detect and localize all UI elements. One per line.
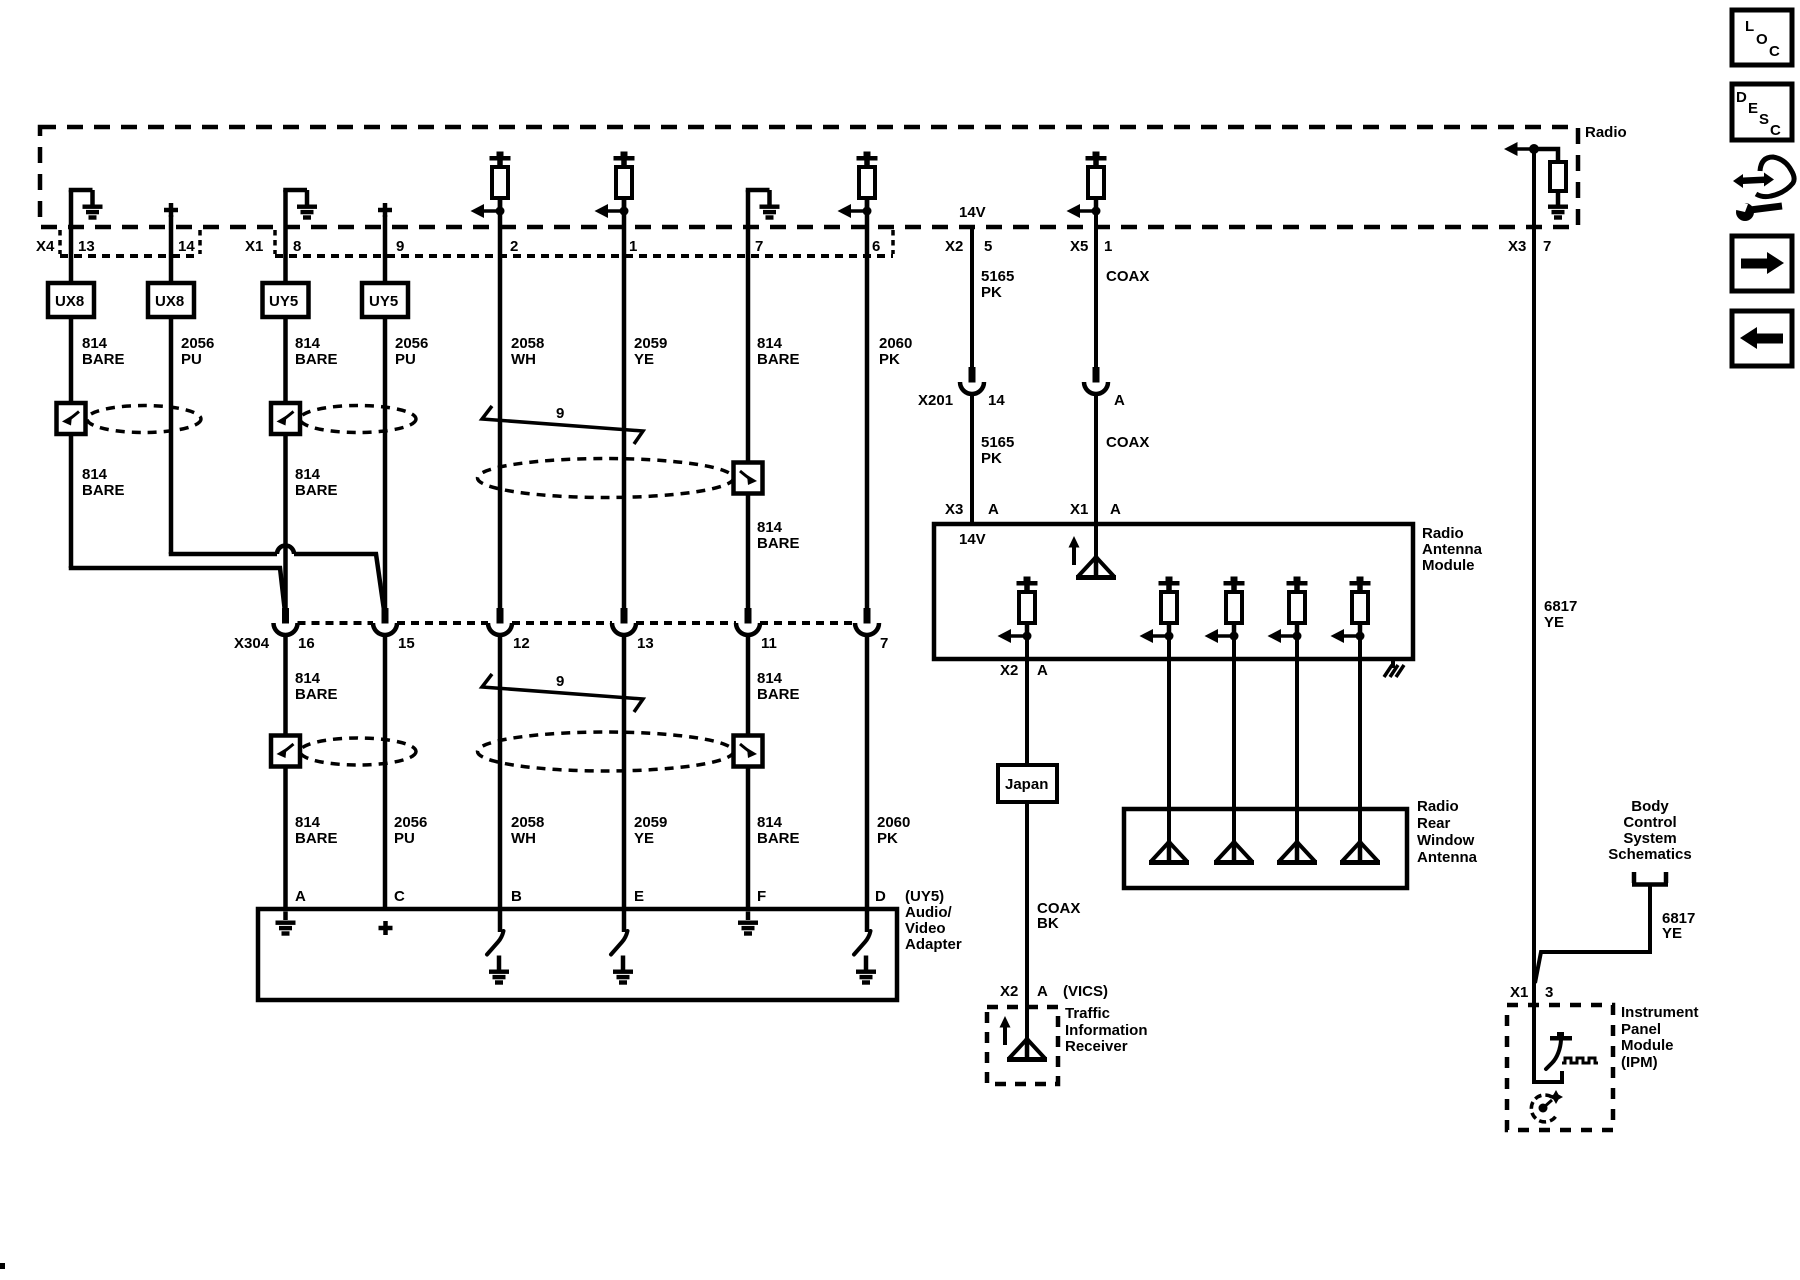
svg-text:A: A [988,501,999,518]
svg-text:BARE: BARE [757,351,800,368]
battery + (adapter C) [379,921,393,935]
svg-text:C: C [1770,122,1781,139]
gauge icon (IPM) [1531,1090,1563,1122]
svg-text:Instrument: Instrument [1621,1004,1699,1021]
svg-text:X304: X304 [234,635,270,652]
wire X1-8 814 BARE [283,190,288,612]
wire X304-13 to adapter E [622,637,627,909]
svg-text:L: L [1745,18,1754,35]
wire X5-1 COAX (lower) [1094,394,1098,557]
svg-text:14: 14 [988,392,1005,409]
wire X4-13 814 BARE [69,190,74,568]
svg-text:COAX: COAX [1106,268,1149,285]
resistor with arrow (radio, X1-2) [471,152,511,219]
in-line connector X201 pin 14 [960,367,984,394]
svg-text:9: 9 [556,405,564,422]
svg-text:3: 3 [1545,984,1553,1001]
svg-text:BARE: BARE [295,351,338,368]
svg-text:UX8: UX8 [155,293,184,310]
svg-text:8: 8 [293,238,301,255]
svg-text:X2: X2 [945,238,963,255]
shield drain symbol (X1-7) [734,463,763,494]
svg-text:B: B [511,888,522,905]
ground (radio, X4-13) [69,190,103,220]
connector labels X1 3 [1510,984,1553,1001]
wire module ant3 [1295,636,1299,842]
connector X304 pin 7 [855,608,879,635]
svg-text:UY5: UY5 [369,293,398,310]
off-page bracket (BCS) [1632,872,1668,885]
resistor with arrow (module ant 4) [1331,577,1371,644]
svg-text:X2: X2 [1000,983,1018,1000]
wire 6817 YE from BCS [1535,884,1650,983]
svg-text:Traffic: Traffic [1065,1005,1110,1022]
sidebar LOC box [1732,10,1792,65]
battery + (X1-9) [378,203,392,217]
svg-text:C: C [394,888,405,905]
svg-text:16: 16 [298,635,315,652]
svg-text:YE: YE [634,351,654,368]
svg-text:BARE: BARE [757,686,800,703]
Radio Antenna Module box [934,524,1483,659]
svg-text:BARE: BARE [82,482,125,499]
svg-text:Antenna: Antenna [1422,541,1483,558]
wire X304-16 to adapter A [283,637,288,909]
svg-text:814: 814 [757,519,783,536]
dashed Radio box [40,124,1627,227]
wire X1-6 2060 PK [865,198,870,610]
svg-text:X5: X5 [1070,238,1088,255]
svg-text:814: 814 [295,335,321,352]
svg-text:814: 814 [757,670,783,687]
svg-text:BARE: BARE [82,351,125,368]
svg-text:2058: 2058 [511,335,544,352]
option box UX8 (X4-13) [48,283,94,317]
svg-text:5165: 5165 [981,268,1014,285]
wire module ant4 [1358,636,1362,842]
svg-text:15: 15 [398,635,415,652]
svg-text:814: 814 [82,466,108,483]
switch to ground (adapter B) [487,910,509,985]
svg-text:COAX: COAX [1106,434,1149,451]
resistor with arrow (module ant 3) [1268,577,1308,644]
wire X5-1 COAX (upper) [1094,198,1098,367]
wire X1-7 814 BARE [746,190,751,610]
antenna symbol (module input) [1076,556,1116,578]
svg-text:X201: X201 [918,392,953,409]
svg-text:13: 13 [78,238,95,255]
svg-text:14V: 14V [959,531,986,548]
svg-text:A: A [1037,662,1048,679]
svg-text:BARE: BARE [757,535,800,552]
resistor with arrow (module out X2-A) [998,577,1038,644]
twisted pair 9 (upper) [482,405,643,444]
sidebar prev arrow box [1732,311,1792,366]
svg-text:BARE: BARE [295,686,338,703]
svg-text:PK: PK [981,450,1002,467]
svg-text:BARE: BARE [295,482,338,499]
svg-text:UY5: UY5 [269,293,298,310]
svg-text:2059: 2059 [634,335,667,352]
svg-text:814: 814 [82,335,108,352]
switch to ground (adapter D) [854,910,876,985]
wire X1-2 2058 WH [498,198,503,610]
svg-text:2056: 2056 [395,335,428,352]
resistor with arrow (radio, X1-6) [838,152,878,219]
wire module ant2 [1232,636,1236,842]
svg-text:5: 5 [984,238,992,255]
svg-text:PU: PU [181,351,202,368]
ground (radio, X1-7) [746,190,780,220]
shield drain symbol (X4-13) [57,403,86,434]
svg-text:X3: X3 [1508,238,1526,255]
sidebar next arrow box [1732,236,1792,291]
svg-text:C: C [1769,43,1780,60]
signal up arrow (module) [1069,536,1080,565]
connector labels X3 A [945,501,999,518]
svg-text:X1: X1 [1070,501,1088,518]
wire X1-1 2059 YE [622,198,627,610]
svg-text:(UY5): (UY5) [905,888,944,905]
svg-text:PK: PK [981,284,1002,301]
svg-text:YE: YE [1662,925,1682,942]
svg-text:Audio/: Audio/ [905,904,952,921]
wire module X2-A COAX BK [1025,636,1029,767]
Audio/Video Adapter box [258,888,962,1000]
antenna symbol (TIR) [1007,1038,1047,1060]
svg-text:Window: Window [1417,832,1475,849]
svg-text:(VICS): (VICS) [1063,983,1108,1000]
svg-text:Radio: Radio [1422,525,1464,542]
connector labels X2 A (VICS) [1000,983,1108,1000]
wire X1-9 2056 PU [383,215,388,610]
wire X2-5 5165 PK (lower) [970,394,974,524]
wire hop over X1-8 [277,546,294,555]
junction and arrow (radio X3-7) [1504,142,1539,156]
svg-text:Panel: Panel [1621,1021,1661,1038]
svg-text:A: A [295,888,306,905]
svg-text:14V: 14V [959,204,986,221]
svg-text:(IPM): (IPM) [1621,1054,1658,1071]
svg-text:2058: 2058 [511,814,544,831]
svg-text:2: 2 [510,238,518,255]
chassis ground (module case) [1384,659,1404,677]
ground (adapter A) [276,912,296,936]
svg-text:Body: Body [1631,798,1669,815]
svg-text:Video: Video [905,920,946,937]
svg-text:7: 7 [1543,238,1551,255]
svg-text:6: 6 [872,238,880,255]
svg-text:BARE: BARE [295,830,338,847]
connector X304 pin 15 [373,608,397,635]
rear window antenna 2 [1214,841,1254,863]
page speck artifact [0,1263,5,1269]
svg-text:12: 12 [513,635,530,652]
connector labels X201 14 A [918,392,1125,409]
wire X4-14 2056 PU [169,215,174,554]
svg-text:6817: 6817 [1544,598,1577,615]
battery + (X4-14) [164,203,178,217]
shield ellipse (lower pair A-C) [300,738,416,765]
svg-text:D: D [875,888,886,905]
ground (radio X3-7) [1548,191,1568,220]
svg-text:UX8: UX8 [55,293,84,310]
svg-text:X1: X1 [245,238,263,255]
connector X304 pin 13 [612,608,636,635]
sidebar DESC box [1732,84,1792,140]
svg-text:2060: 2060 [879,335,912,352]
rear window antenna 4 [1340,841,1380,863]
branch to resistor (radio X3-7) [1534,149,1558,162]
ground (radio, X1-8) [283,190,317,220]
resistor with arrow (module ant 2) [1205,577,1245,644]
resistor with arrow (radio, X5-1) [1067,152,1107,219]
svg-text:A: A [1037,983,1048,1000]
rear window antenna 3 [1277,841,1317,863]
svg-text:X3: X3 [945,501,963,518]
sidebar tools icon [1732,157,1794,221]
resistor with arrow (radio, X1-1) [595,152,635,219]
svg-text:A: A [1110,501,1121,518]
svg-text:Control: Control [1623,814,1676,831]
connector X1 bracket [245,230,893,256]
shield ellipse (X1 pair 8-9) [300,406,416,433]
Body Control System Schematics reference [1608,798,1691,863]
svg-text:814: 814 [295,670,321,687]
connector labels X3 7 [1508,238,1551,255]
connector X304 pin 12 [488,608,512,635]
svg-text:E: E [1748,100,1758,117]
svg-text:D: D [1736,89,1747,106]
signal up arrow (TIR) [1000,1016,1011,1045]
wire X304-12 to adapter B [498,637,503,909]
svg-text:9: 9 [556,673,564,690]
svg-text:7: 7 [755,238,763,255]
svg-text:E: E [634,888,644,905]
svg-text:BK: BK [1037,915,1059,932]
option box UY5 (X1-9) [362,283,408,317]
svg-text:9: 9 [396,238,404,255]
svg-text:Receiver: Receiver [1065,1038,1128,1055]
svg-text:1: 1 [629,238,637,255]
svg-text:PK: PK [877,830,898,847]
svg-text:2059: 2059 [634,814,667,831]
svg-text:Schematics: Schematics [1608,846,1691,863]
svg-text:PU: PU [394,830,415,847]
svg-text:14: 14 [178,238,195,255]
connector labels X5 1 [1070,238,1112,255]
svg-text:Radio: Radio [1585,124,1627,141]
svg-text:Adapter: Adapter [905,936,962,953]
wire bend X4-13 to X304-16 [71,566,285,612]
svg-text:2060: 2060 [877,814,910,831]
svg-text:13: 13 [637,635,654,652]
svg-text:WH: WH [511,351,536,368]
svg-text:YE: YE [1544,614,1564,631]
svg-text:O: O [1756,31,1768,48]
Japan option box [998,765,1057,802]
svg-text:Information: Information [1065,1022,1148,1039]
svg-text:7: 7 [880,635,888,652]
Radio Rear Window Antenna box [1124,798,1478,888]
resistor (radio X3-7 pullup) [1550,162,1566,191]
shield ellipse (X1 pair 2-1) [478,459,734,498]
svg-text:System: System [1623,830,1676,847]
svg-text:814: 814 [757,814,783,831]
connector X304 dashed line [298,621,856,625]
connector X304 pin 11 [736,608,760,635]
svg-text:814: 814 [757,335,783,352]
wire X3-7 6817 YE [1534,149,1562,1082]
svg-text:Rear: Rear [1417,815,1451,832]
shield drain symbol (X1-8) [271,403,300,434]
svg-text:S: S [1759,111,1769,128]
wire X304-11 to adapter F [746,637,751,909]
resistor with arrow (module ant 1) [1140,577,1180,644]
adapter pin letters [295,888,886,905]
svg-text:Module: Module [1422,557,1475,574]
wire Japan to TIR [1025,802,1029,1039]
shield ellipse (lower pair B-E) [478,732,734,771]
svg-text:BARE: BARE [757,830,800,847]
svg-text:PK: PK [879,351,900,368]
wire X2-5 5165 PK (upper) [970,227,974,367]
svg-text:X2: X2 [1000,662,1018,679]
connector labels X1 A [1070,501,1121,518]
svg-text:PU: PU [395,351,416,368]
wire module ant1 [1167,636,1171,842]
circuit breaker (IPM) [1546,1032,1598,1069]
svg-text:2056: 2056 [394,814,427,831]
svg-text:5165: 5165 [981,434,1014,451]
wire X304-7 to adapter D [865,637,870,909]
svg-text:2056: 2056 [181,335,214,352]
twisted pair 9 (lower) [482,673,643,712]
connector labels X2 5 [945,238,992,255]
svg-text:F: F [757,888,766,905]
shield drain symbol (lower, adapter A) [271,736,300,767]
shield drain symbol (lower, adapter F) [734,736,763,767]
svg-text:WH: WH [511,830,536,847]
connector X304 pin 16 [274,608,298,635]
svg-text:X4: X4 [36,238,55,255]
svg-text:X1: X1 [1510,984,1528,1001]
svg-text:A: A [1114,392,1125,409]
Traffic Information Receiver dashed box [987,1005,1148,1084]
option box UY5 (X1-8) [263,283,309,317]
ground (adapter F) [738,912,758,936]
svg-text:11: 11 [761,635,777,652]
svg-text:Antenna: Antenna [1417,849,1478,866]
svg-text:YE: YE [634,830,654,847]
wire X304-15 to adapter C [383,637,388,909]
svg-text:Radio: Radio [1417,798,1459,815]
rear window antenna 1 [1149,841,1189,863]
option box UX8 (X4-14) [148,283,194,317]
in-line connector X201 pin A [1084,367,1108,394]
switch to ground (adapter E) [611,910,633,985]
connector labels X2 A (module out) [1000,662,1048,679]
svg-text:Japan: Japan [1005,776,1048,793]
svg-text:1: 1 [1104,238,1112,255]
svg-text:814: 814 [295,466,321,483]
connector X4 bracket [36,230,200,256]
svg-text:Module: Module [1621,1037,1674,1054]
shield ellipse (X4 pair) [87,406,201,433]
wire bend X4-14 to X304-15 with hop [171,552,384,610]
Instrument Panel Module dashed box [1507,1004,1699,1130]
svg-text:814: 814 [295,814,321,831]
connector X304 labels [234,635,888,652]
